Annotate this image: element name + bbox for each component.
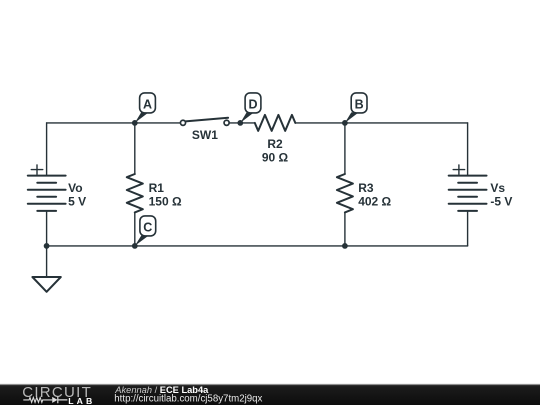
svg-text:Vo: Vo [68, 181, 82, 195]
battery Vs plates [449, 176, 487, 211]
switch SW1 left terminal [180, 120, 185, 125]
wire left battery bottom lead [46, 211, 48, 246]
resistor R2 [255, 115, 295, 131]
svg-text:402 Ω: 402 Ω [358, 194, 391, 208]
svg-text:R3: R3 [358, 181, 374, 195]
node dot D [237, 120, 243, 126]
svg-text:Vs: Vs [490, 181, 505, 195]
node C label box [140, 216, 156, 236]
ground [32, 277, 60, 292]
battery Vs plus sign [453, 165, 464, 174]
switch SW1 right terminal [224, 120, 229, 125]
wire R1 top lead [134, 123, 136, 174]
node D callout pointer [240, 112, 254, 123]
node B label box [351, 93, 367, 113]
svg-text:B: B [355, 98, 364, 112]
node dot A [132, 120, 138, 126]
svg-text:A: A [143, 98, 152, 112]
svg-text:5 V: 5 V [68, 194, 86, 208]
wire right battery top lead [467, 123, 469, 176]
logo resistor zigzag [23, 398, 52, 403]
junction dot bottom left [44, 243, 50, 249]
svg-text:-5 V: -5 V [490, 194, 512, 208]
wire R3 bottom lead [344, 212, 346, 246]
wire left battery top lead [46, 123, 48, 176]
logo diode [52, 397, 57, 403]
junction dot R3 bottom [342, 243, 348, 249]
wire right battery bottom lead [467, 211, 469, 246]
wire switch to R2 [227, 122, 255, 124]
svg-text:http://circuitlab.com/cj58y7tm: http://circuitlab.com/cj58y7tm2j9qx [114, 393, 262, 404]
node A callout pointer [135, 112, 149, 123]
node D label box [245, 93, 261, 113]
wire top left horizontal [47, 122, 183, 124]
node dot B [342, 120, 348, 126]
node C callout pointer [135, 236, 149, 246]
node A label box [140, 93, 156, 113]
resistor R1 [127, 174, 143, 212]
svg-text:R1: R1 [149, 181, 165, 195]
resistor R3 [337, 174, 353, 212]
switch SW1 lever [185, 118, 228, 122]
wire ground lead [46, 246, 48, 277]
svg-text:D: D [248, 98, 257, 112]
wire R3 top lead [344, 123, 346, 174]
battery Vo plates [28, 176, 66, 211]
wire R2 to right battery [295, 122, 467, 124]
node B callout pointer [345, 112, 359, 123]
wire R1 bottom lead [134, 212, 136, 246]
svg-text:SW1: SW1 [192, 128, 218, 142]
svg-text:C: C [143, 221, 152, 235]
svg-text:150 Ω: 150 Ω [149, 194, 182, 208]
svg-text:90 Ω: 90 Ω [262, 151, 289, 165]
svg-text:LAB: LAB [68, 396, 95, 405]
svg-text:R2: R2 [267, 137, 283, 151]
battery Vo plus sign [31, 165, 42, 174]
node dot C [132, 243, 138, 249]
wire bottom horizontal [47, 245, 468, 247]
